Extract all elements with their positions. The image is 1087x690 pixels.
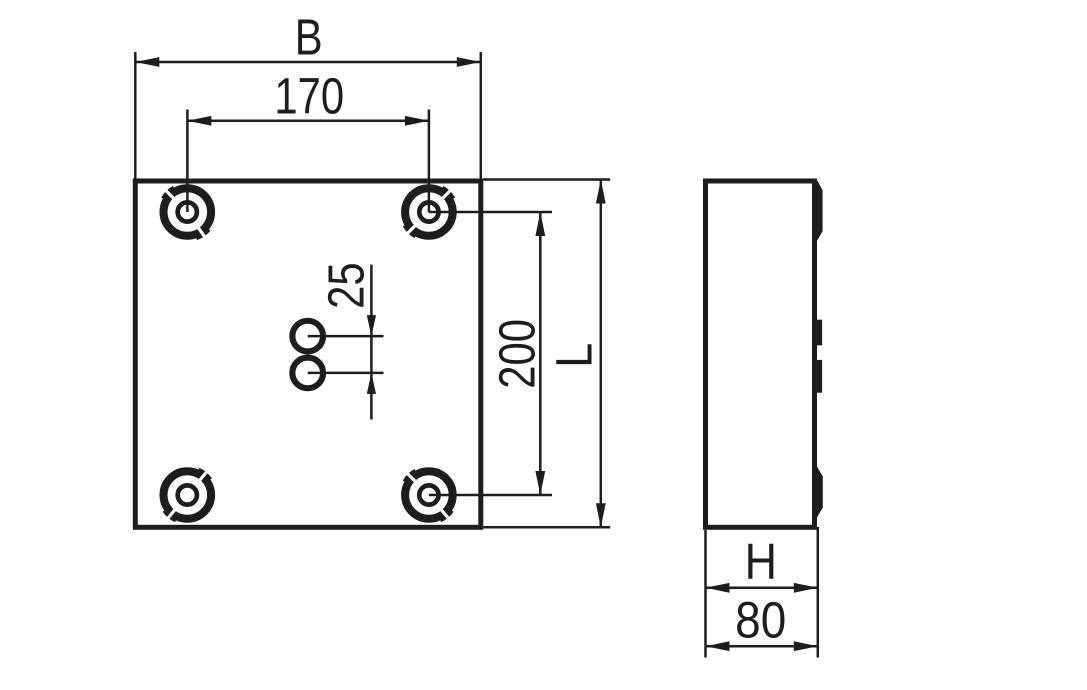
svg-text:200: 200 [489, 319, 546, 389]
svg-text:B: B [295, 9, 323, 66]
svg-text:170: 170 [274, 68, 344, 125]
svg-text:80: 80 [735, 592, 786, 649]
svg-text:H: H [745, 534, 777, 590]
svg-text:L: L [547, 343, 603, 368]
svg-text:25: 25 [318, 262, 375, 309]
